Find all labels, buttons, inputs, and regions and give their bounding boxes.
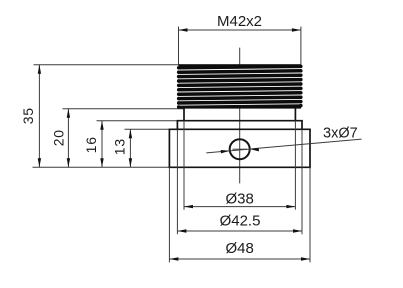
extension line bottom (base)	[33, 166, 170, 168]
extension line 13 dim	[125, 128, 170, 130]
hole horizontal center tick	[233, 148, 248, 150]
hole 3xO7 circle	[230, 139, 250, 159]
o42.5 section outline	[177, 121, 303, 130]
extension line 16 dim	[97, 120, 178, 122]
leader line 3xO7	[206, 139, 361, 153]
thread M42 body	[177, 64, 303, 109]
flange o48 outline	[169, 129, 311, 167]
svg-text:M42x2: M42x2	[217, 13, 262, 30]
svg-text:Ø42.5: Ø42.5	[220, 213, 261, 230]
svg-text:35: 35	[20, 107, 36, 124]
dimension M42x2	[179, 29, 301, 31]
svg-text:16: 16	[83, 136, 99, 153]
extension lines dia38 through flange	[183, 121, 185, 210]
dimension dia38	[184, 206, 295, 208]
centerline vertical axis	[239, 48, 241, 184]
svg-text:Ø38: Ø38	[226, 190, 254, 207]
svg-text:3xØ7: 3xØ7	[323, 126, 358, 142]
thread edge teeth left	[177, 66, 180, 109]
leader arrow right (points left at circle)	[250, 148, 259, 151]
dimension dia48	[169, 258, 310, 260]
extension line top of thread (35 dim)	[34, 64, 179, 66]
dimension 35	[38, 65, 40, 168]
leader arrow left (points right at circle)	[221, 150, 230, 153]
extension lines dia42.5 through flange	[176, 129, 178, 234]
extension lines dia48	[168, 167, 170, 262]
svg-text:Ø48: Ø48	[226, 240, 254, 257]
dimension 16	[101, 121, 103, 168]
neck o38 section outline	[184, 108, 295, 121]
dimension 13	[129, 129, 131, 167]
extension line 20 dim	[63, 108, 184, 110]
svg-text:20: 20	[51, 129, 67, 146]
svg-text:13: 13	[112, 138, 128, 155]
dimension dia42.5	[177, 230, 302, 232]
extension lines M42x2	[178, 27, 180, 65]
dimension 20	[67, 109, 69, 168]
thread edge teeth right	[299, 65, 302, 108]
